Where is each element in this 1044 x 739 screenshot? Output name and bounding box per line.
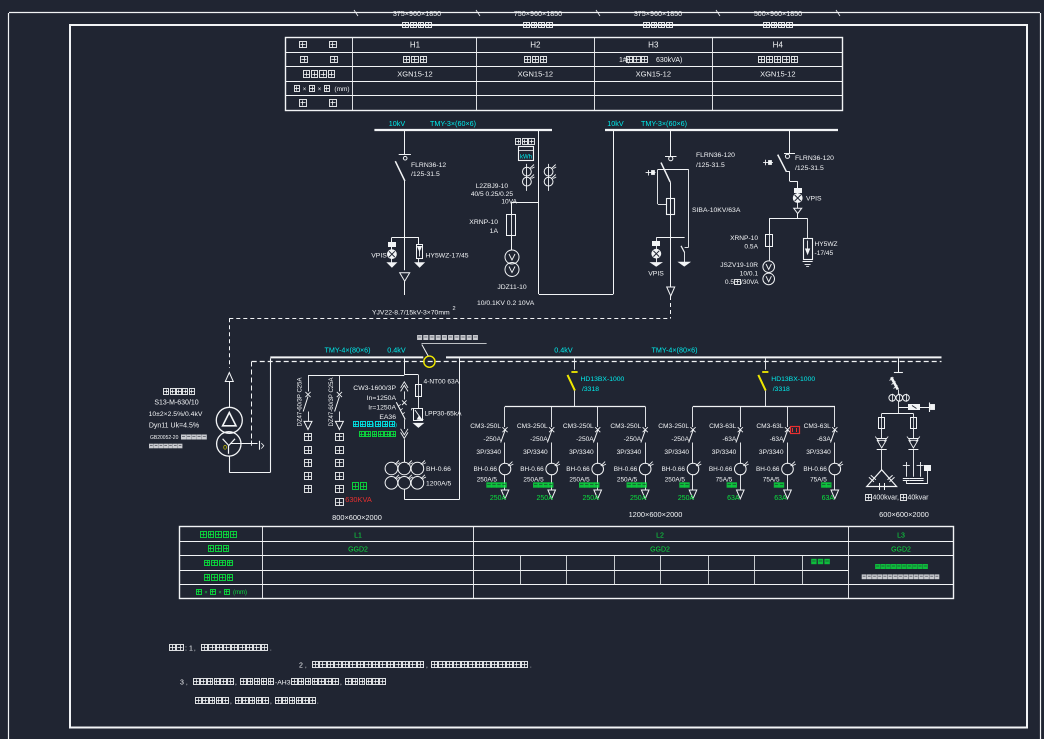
label cabinet 1200x600x2000 [629, 510, 683, 519]
feeder CT x=834.8 [829, 462, 843, 490]
table row name [301, 57, 798, 65]
svg-text:3P/3340: 3P/3340 [712, 449, 737, 456]
busbar bus2 10kV [605, 129, 838, 131]
table row cabinet-no [300, 41, 784, 50]
wire H4 tee [769, 214, 807, 219]
feeder name green x=505.0 [486, 482, 506, 487]
wire H2 jog [511, 203, 538, 216]
svg-text:10kV: 10kV [607, 119, 624, 128]
svg-text:630KVA: 630KVA [345, 495, 372, 504]
wire subbus group1 [505, 406, 645, 408]
label HY5WZ-17/45 [426, 253, 469, 260]
feeder CT x=505.0 [499, 462, 513, 490]
svg-text:40kvar: 40kvar [908, 495, 930, 502]
feeder name green x=551.7 [533, 482, 553, 487]
cap fuse right [911, 418, 917, 429]
aux feeder at x=339.4 [335, 375, 344, 429]
label TMY LV left [324, 346, 370, 355]
label SIBA-10KV/63A [692, 207, 741, 214]
svg-text:CW3-1600/3P: CW3-1600/3P [353, 385, 396, 392]
svg-text:-63A: -63A [722, 436, 737, 443]
wire cap tap [894, 358, 903, 372]
svg-text:63A: 63A [774, 495, 787, 502]
feeder CT x=693.0 [687, 462, 701, 490]
svg-text:SIBA-10KV/63A: SIBA-10KV/63A [692, 207, 741, 214]
wire T1 hv dashed [229, 318, 231, 368]
svg-text:0.4kV: 0.4kV [387, 346, 406, 355]
fuse F4 XRNP-10 [766, 218, 773, 261]
svg-text:600×600×2000: 600×600×2000 [879, 510, 929, 519]
svg-text:,: , [340, 680, 342, 687]
svg-text:-250A: -250A [671, 436, 689, 443]
aux feeder label rotated x=308 [298, 378, 304, 427]
wire H2 return [539, 131, 614, 295]
feeder name green x=740.3 [727, 482, 737, 487]
label drawout cyan [354, 422, 398, 429]
svg-text:630kVA): 630kVA) [656, 57, 682, 64]
wire H1 main [404, 181, 406, 237]
svg-text:L3: L3 [897, 532, 905, 539]
notes line3 [180, 679, 386, 687]
label 4-NT00 63A [424, 378, 460, 385]
earth switch H3 [679, 246, 690, 266]
CT row2 BH-0.66 [385, 475, 426, 489]
svg-text:×: × [204, 590, 207, 596]
feeder arrow x=597.7 [594, 490, 602, 499]
wire H2 drop [538, 131, 540, 294]
feeder CT label x=551.7 [520, 466, 544, 484]
aux feeder vertical name x=308 [305, 434, 312, 493]
capacitor delta [867, 470, 897, 490]
svg-text:BH-0.66: BH-0.66 [709, 466, 733, 473]
feeder name green x=645.2 [627, 482, 647, 487]
label HY5WZ -17/45 [815, 241, 838, 257]
svg-text:L1: L1 [354, 532, 362, 539]
LV table row4 [205, 575, 233, 581]
svg-text:,: , [230, 699, 232, 706]
svg-text:BH-0.66: BH-0.66 [474, 466, 498, 473]
feeder CT x=597.7 [592, 462, 606, 490]
svg-text:×: × [318, 87, 322, 93]
svg-text:Dyn11 Uk=4.5%: Dyn11 Uk=4.5% [149, 423, 199, 430]
label HD13BX at x=574.5 [581, 376, 625, 393]
cable head H3 arrow [667, 287, 675, 296]
feeder amp green x=505.0 [490, 495, 507, 502]
svg-text:-250A: -250A [483, 436, 501, 443]
transformer T1 primary [216, 407, 242, 433]
svg-text:/125-31.5: /125-31.5 [411, 171, 440, 178]
bus1 label TMY [430, 119, 476, 128]
arrester H4 HY5WZ [803, 218, 813, 266]
svg-text:(: ( [373, 422, 375, 428]
svg-text:HD13BX-1000: HD13BX-1000 [771, 376, 815, 383]
wire H3 main [670, 182, 672, 287]
svg-text:XRNP-10: XRNP-10 [469, 219, 498, 226]
feeder breaker CM3-63L x=787.5 [783, 407, 790, 464]
svg-text:-AH3: -AH3 [275, 680, 291, 687]
VPIS H3 indicator [651, 238, 661, 267]
knife switch HD13BX at x=765.3 [758, 358, 768, 406]
svg-text:3P/3340: 3P/3340 [664, 449, 689, 456]
wire ACB bus tap [404, 358, 406, 375]
LV table L3 note [862, 564, 940, 579]
busbar bus1 10kV [374, 129, 552, 131]
svg-text:CM3-250L: CM3-250L [563, 423, 594, 430]
svg-text:HY5WZ: HY5WZ [815, 241, 838, 248]
feeder labels x=834.8 [804, 423, 832, 456]
feeder amp green x=834.8 [822, 495, 835, 502]
svg-text:H1: H1 [410, 41, 421, 50]
cap fuse left [879, 418, 885, 429]
feeder name green x=787.5 [774, 482, 784, 487]
svg-text:FLRN36-12: FLRN36-12 [411, 162, 446, 169]
svg-text:750×960×1850: 750×960×1850 [514, 9, 562, 18]
svg-text:500×960×1850: 500×960×1850 [754, 9, 802, 18]
CT pair A [523, 164, 535, 191]
CT pair B [544, 164, 556, 191]
svg-text:(mm): (mm) [334, 86, 349, 93]
feeder arrow x=693.0 [689, 490, 697, 499]
svg-text:BH-0.66: BH-0.66 [520, 466, 544, 473]
dimension label 375×960×1850 [393, 9, 441, 28]
svg-text:800×600×2000: 800×600×2000 [332, 513, 382, 522]
feeder labels x=693.0 [658, 423, 689, 456]
label TMY LV right [651, 346, 697, 355]
svg-text:CM3-250L: CM3-250L [658, 423, 689, 430]
label XRNP-10 1A [469, 219, 498, 235]
label cable-head [516, 139, 535, 145]
svg-text:3P/3340: 3P/3340 [759, 449, 784, 456]
svg-text:YJV22-8.7/15kV-3×70mm: YJV22-8.7/15kV-3×70mm [372, 310, 450, 317]
meter kWh box [519, 147, 534, 161]
label VPIS H1 [371, 253, 387, 260]
LV cabinet table grid [179, 527, 953, 600]
aux feeder vertical name x=339.4 [336, 434, 344, 506]
svg-text:JDZ11-10: JDZ11-10 [497, 284, 527, 291]
wire cap mid [898, 390, 900, 395]
fuse striker H4 [763, 160, 773, 166]
label transformer specs [149, 389, 207, 449]
wire H3 loop left [658, 169, 667, 204]
svg-text:CM3-250L: CM3-250L [517, 423, 548, 430]
notes line2 [299, 662, 532, 670]
svg-text:,: , [270, 699, 272, 706]
svg-text:0: 0 [223, 445, 227, 452]
feeder arrow x=645.2 [641, 490, 649, 499]
label JSZV19-10R [720, 262, 759, 286]
label cabinet 600x600x2000 [879, 510, 929, 519]
svg-text:/125-31.5: /125-31.5 [696, 162, 725, 169]
svg-text:L2ZBJ9-10: L2ZBJ9-10 [476, 183, 509, 190]
svg-text::: : [185, 646, 187, 653]
feeder amp green x=551.7 [537, 495, 554, 502]
feeder breaker CM3-63L x=834.8 [831, 407, 838, 464]
fuse F3 SIBA [667, 199, 675, 215]
svg-text:-63A: -63A [817, 436, 832, 443]
dimension label 500×960×1850 [754, 9, 802, 28]
svg-text:250A: 250A [630, 495, 647, 502]
label VPIS H4 [806, 196, 822, 203]
svg-text:1200×600×2000: 1200×600×2000 [629, 510, 683, 519]
capacitor star [903, 462, 931, 484]
wire subbus group2 [693, 406, 835, 408]
svg-text:S13-M-630/10: S13-M-630/10 [154, 400, 198, 407]
svg-text:FLRN36-120: FLRN36-120 [795, 155, 834, 162]
svg-text:10/0.1: 10/0.1 [740, 271, 759, 278]
feeder amp green x=740.3 [727, 495, 740, 502]
wire small-feeder subbus [308, 375, 404, 377]
feeder amp green x=597.7 [583, 495, 600, 502]
svg-text:63A: 63A [822, 495, 835, 502]
switch QS4 contact [784, 154, 795, 159]
transformer T1 secondary [217, 432, 241, 456]
feeder breaker CM3-250L x=597.7 [593, 407, 600, 464]
svg-text:L2: L2 [656, 532, 664, 539]
svg-text:40/5 0.25/0.25: 40/5 0.25/0.25 [471, 191, 513, 198]
svg-text:,: , [426, 663, 428, 670]
svg-text:-63A: -63A [770, 436, 785, 443]
wire H2 pt [511, 236, 513, 250]
svg-text:1#(: 1#( [619, 57, 630, 64]
neutral CT yellow circle [424, 356, 435, 367]
feeder breaker CM3-63L x=740.3 [736, 407, 743, 464]
VPIS H1 indicator [388, 237, 397, 267]
dimension label 750×960×1850 [514, 9, 562, 28]
svg-text:VPIS: VPIS [806, 196, 822, 203]
wire cap split [882, 414, 914, 418]
label LPP30-65kA [425, 411, 463, 418]
wire H3 bottom tee [656, 237, 684, 239]
svg-text:XGN15-12: XGN15-12 [397, 70, 432, 79]
label 630KVA red [345, 495, 372, 504]
svg-text:CM3-250L: CM3-250L [610, 423, 641, 430]
wire H4 drop [789, 131, 791, 153]
svg-text:VPIS: VPIS [371, 253, 387, 260]
bus2 label 10kV [607, 119, 624, 128]
svg-text:-250A: -250A [576, 436, 594, 443]
feeder CT label x=693.0 [662, 466, 686, 484]
svg-text:kWh: kWh [520, 154, 532, 160]
HV cabinet table grid [286, 38, 844, 111]
LV table row5 [197, 590, 248, 597]
svg-text:0.5A: 0.5A [744, 244, 758, 251]
LV table row2 [209, 546, 912, 554]
fuse F2 XRNP-10 [507, 215, 516, 236]
svg-text:EA36: EA36 [379, 414, 396, 421]
svg-text:×: × [303, 87, 307, 93]
svg-text:HD13BX-1000: HD13BX-1000 [581, 376, 625, 383]
svg-text:3P/3340: 3P/3340 [569, 449, 594, 456]
feeder breaker CM3-250L x=645.2 [641, 407, 648, 464]
svg-text:TMY-3×(60×6): TMY-3×(60×6) [641, 119, 687, 128]
cap discharge branch [898, 403, 934, 413]
label fan green [353, 483, 367, 490]
wire H3 loop top [658, 169, 689, 171]
svg-text:10kV: 10kV [389, 119, 406, 128]
feeder labels x=645.2 [610, 423, 641, 456]
feeder CT label x=740.3 [709, 466, 733, 484]
feeder name green x=834.8 [821, 482, 831, 487]
feeder labels x=740.3 [709, 423, 737, 456]
svg-text:H4: H4 [773, 41, 784, 50]
busbar LV solid [270, 356, 941, 358]
feeder breaker CM3-250L x=505.0 [501, 407, 508, 464]
SPD LPP30-65kA [412, 397, 424, 428]
red highlight box [791, 427, 800, 434]
label neutral-CT note [417, 335, 487, 356]
label CT L2ZBJ9-10 [471, 183, 518, 206]
svg-text:GB20052-20: GB20052-20 [150, 435, 179, 441]
svg-text:375×960×1850: 375×960×1850 [393, 9, 441, 18]
svg-text:TMY-4×(80×6): TMY-4×(80×6) [651, 346, 697, 355]
cable head T1 [225, 373, 233, 408]
fuse striker H3 [646, 170, 656, 176]
svg-text:10±2×2.5%/0.4kV: 10±2×2.5%/0.4kV [149, 411, 203, 418]
dimension ticks [354, 10, 840, 16]
svg-text:CM3-63L: CM3-63L [804, 423, 831, 430]
svg-text:BH-0.66: BH-0.66 [803, 466, 827, 473]
aux feeder label rotated x=339.4 [329, 378, 335, 427]
svg-text:3P/3340: 3P/3340 [617, 449, 642, 456]
svg-text:JSZV19-10R: JSZV19-10R [720, 262, 758, 269]
feeder CT label x=597.7 [566, 466, 590, 484]
CT row1 BH-0.66 [385, 461, 426, 475]
feeder labels x=597.7 [563, 423, 594, 456]
label XRNP-10 0.5A [730, 235, 758, 251]
svg-text:): ) [395, 422, 397, 428]
svg-text:CM3-250L: CM3-250L [470, 423, 501, 430]
fuse 4-NT00 [416, 375, 422, 397]
feeder arrow x=505.0 [501, 490, 509, 499]
label CW3-1600 [353, 385, 396, 421]
label interlock green [360, 432, 396, 437]
feeder amp green x=693.0 [678, 495, 695, 502]
wire ACB bottom loop [404, 358, 459, 499]
wire ACB top link [404, 374, 418, 376]
label kvar [866, 495, 930, 502]
feeder CT x=740.3 [735, 462, 749, 490]
svg-text:-250A: -250A [530, 436, 548, 443]
feeder breaker CM3-250L x=551.7 [547, 407, 554, 464]
bus1 label 10kV [389, 119, 406, 128]
table row model [304, 70, 796, 79]
svg-text:FLRN36-120: FLRN36-120 [696, 152, 735, 159]
feeder CT x=551.7 [546, 462, 560, 490]
knife switch HD13BX at x=574.5 [568, 358, 578, 406]
svg-text:/3318: /3318 [773, 386, 790, 393]
svg-text:400kvar,: 400kvar, [873, 495, 900, 502]
svg-text:250A: 250A [583, 495, 600, 502]
svg-text:/3318: /3318 [582, 386, 599, 393]
svg-text:BH-0.66: BH-0.66 [566, 466, 590, 473]
label 0.4kV mid [554, 346, 573, 355]
svg-text:XGN15-12: XGN15-12 [518, 70, 553, 79]
wire cap below ct [898, 401, 900, 413]
svg-text:BH-0.66: BH-0.66 [756, 466, 780, 473]
feeder CT label x=505.0 [474, 466, 498, 484]
feeder arrow x=740.3 [737, 490, 745, 499]
svg-text:3P/3340: 3P/3340 [476, 449, 501, 456]
switch QS1 blade [395, 161, 405, 181]
feeder arrow x=834.8 [831, 490, 839, 499]
svg-text:3P/3340: 3P/3340 [806, 449, 831, 456]
feeder labels x=551.7 [517, 423, 548, 456]
svg-text:XRNP-10: XRNP-10 [730, 235, 758, 242]
svg-text:GGD2: GGD2 [348, 547, 368, 554]
switch QS3 contact [665, 157, 677, 161]
svg-text:1: 1 [189, 646, 193, 653]
svg-text:LPP30-65kA: LPP30-65kA [425, 411, 463, 418]
svg-text:0.4kV: 0.4kV [554, 346, 573, 355]
svg-text:Ir=1250A: Ir=1250A [368, 405, 396, 412]
wire T1 lv riser [229, 358, 270, 472]
svg-text:-250A: -250A [624, 436, 642, 443]
svg-text:/30VA: /30VA [741, 279, 759, 286]
feeder name green x=597.7 [579, 482, 599, 487]
wire H4 jog [786, 172, 798, 189]
svg-text:,: , [235, 680, 237, 687]
wire H3 cable dashed [229, 296, 670, 319]
thyristor switch left [875, 428, 888, 469]
svg-text:BH-0.66: BH-0.66 [614, 466, 638, 473]
svg-text:0.5: 0.5 [725, 279, 734, 286]
label PT ratio [477, 300, 535, 307]
label JDZ11-10 [497, 284, 527, 291]
feeder breaker CM3-250L x=693.0 [689, 407, 696, 464]
aux feeder at x=308 [303, 375, 312, 429]
feeder arrow x=787.5 [784, 490, 792, 499]
svg-text:XGN15-12: XGN15-12 [760, 70, 795, 79]
label FLRN36-120 H3 [696, 152, 735, 169]
switch QS4 blade [778, 155, 787, 172]
label FLRN36-120 H4 [795, 155, 834, 172]
feeder CT label x=834.8 [803, 466, 827, 484]
svg-text:375×960×1850: 375×960×1850 [634, 9, 682, 18]
label BH-0.66 main [426, 466, 452, 488]
wire ACB to CTs [404, 439, 406, 462]
svg-text:-17/45: -17/45 [815, 250, 834, 257]
svg-text:2: 2 [453, 306, 456, 312]
label neutral 0 [223, 445, 227, 452]
feeder CT x=787.5 [782, 462, 796, 490]
wire H1 drop [404, 131, 406, 155]
cable label YJV22 [372, 306, 456, 317]
svg-text:250A: 250A [490, 495, 507, 502]
svg-text:3P/3340: 3P/3340 [523, 449, 548, 456]
svg-text:TMY-3×(60×6): TMY-3×(60×6) [430, 119, 476, 128]
label HD13BX at x=765.3 [771, 376, 815, 393]
switch QS3 blade [661, 163, 670, 183]
svg-text:DZ47-60/3P C25A: DZ47-60/3P C25A [298, 378, 304, 427]
table row remark [300, 100, 337, 107]
feeder CT x=645.2 [639, 462, 653, 490]
wire H3 drop [670, 131, 672, 156]
svg-text:10/0.1KV 0.2 10VA: 10/0.1KV 0.2 10VA [477, 300, 535, 307]
svg-text:(mm): (mm) [233, 590, 247, 596]
wire H3 loop right [685, 169, 689, 247]
label cabinet 800x600x2000 [332, 513, 382, 522]
label VPIS H3 [648, 271, 664, 278]
feeder amp green x=645.2 [630, 495, 647, 502]
svg-text:GGD2: GGD2 [891, 547, 911, 554]
wire T1 neutral [230, 441, 264, 450]
svg-text:H2: H2 [530, 41, 541, 50]
switch QS1 contact [399, 155, 411, 161]
svg-text:HY5WZ-17/45: HY5WZ-17/45 [426, 253, 469, 260]
svg-text:TMY-4×(80×6): TMY-4×(80×6) [324, 346, 370, 355]
svg-text:250A: 250A [678, 495, 695, 502]
svg-text:VPIS: VPIS [648, 271, 664, 278]
